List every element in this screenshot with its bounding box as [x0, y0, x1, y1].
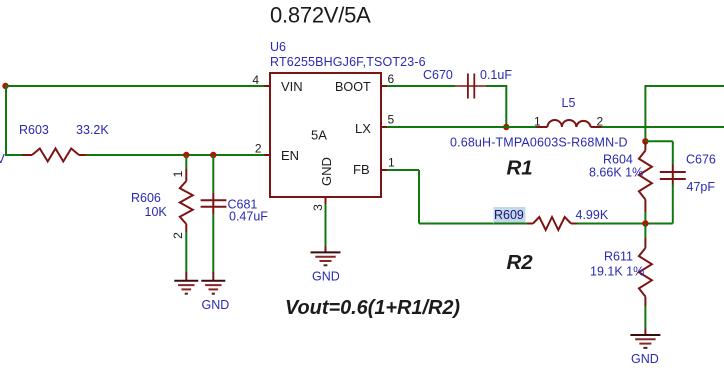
svg-text:GND: GND	[319, 157, 334, 186]
wire R606 top	[185, 155, 187, 169]
capacitor C681	[212, 193, 214, 214]
node EN junction 1	[183, 152, 189, 158]
svg-text:C676: C676	[686, 153, 716, 167]
svg-text:GND: GND	[202, 298, 230, 312]
svg-text:0.1uF: 0.1uF	[480, 68, 512, 82]
ground stub R611	[644, 329, 646, 336]
svg-text:0.47uF: 0.47uF	[229, 210, 268, 224]
wire C670 to LX	[486, 85, 506, 87]
svg-text:10K: 10K	[145, 205, 168, 219]
svg-text:2: 2	[171, 232, 185, 239]
svg-text:2: 2	[597, 115, 604, 129]
svg-text:8.66K 1%: 8.66K 1%	[589, 166, 643, 180]
svg-text:5: 5	[388, 113, 395, 127]
wire FB from pin1	[387, 169, 419, 171]
resistor R609	[527, 223, 533, 225]
svg-text:R604: R604	[603, 153, 633, 167]
ground stub pin3	[325, 247, 327, 253]
svg-text:R603: R603	[19, 123, 49, 137]
wire left vertical drop	[5, 85, 7, 155]
ground symbol under U6 pin3	[311, 251, 341, 253]
wire VIN rail top	[6, 85, 265, 87]
wire VOUT to right edge	[602, 126, 724, 128]
svg-text:0.68uH-TMPA0603S-R68MN-D: 0.68uH-TMPA0603S-R68MN-D	[450, 136, 628, 150]
highlight box R609	[494, 207, 526, 224]
svg-text:BOOT: BOOT	[335, 80, 371, 94]
node FB divider top junction	[642, 138, 648, 144]
inductor L5	[537, 126, 548, 128]
svg-text:4: 4	[252, 73, 259, 87]
wire R604 bottom	[644, 212, 646, 224]
wire EN net to IC	[86, 154, 264, 156]
ground symbol under R606	[174, 280, 198, 282]
svg-text:RT6255BHGJ6F,TSOT23-6: RT6255BHGJ6F,TSOT23-6	[270, 55, 426, 69]
svg-text:33.2K: 33.2K	[76, 123, 109, 137]
svg-text:FB: FB	[353, 162, 370, 177]
svg-text:1: 1	[388, 156, 395, 170]
svg-text:0.872V/5A: 0.872V/5A	[270, 3, 371, 28]
svg-text:V: V	[0, 152, 6, 166]
resistor R604	[644, 141, 646, 150]
svg-text:GND: GND	[631, 352, 659, 366]
node LX junction	[503, 124, 509, 130]
svg-text:2: 2	[255, 142, 262, 156]
resistor R606	[185, 169, 187, 181]
svg-text:EN: EN	[281, 148, 299, 163]
ground symbol under C681	[201, 280, 225, 282]
resistor R603	[32, 149, 79, 162]
wire R609 to junction	[577, 223, 645, 225]
svg-text:L5: L5	[562, 96, 576, 110]
svg-text:5A: 5A	[311, 128, 327, 143]
svg-text:GND: GND	[312, 270, 340, 284]
ground stub R606	[185, 272, 187, 281]
capacitor C670	[455, 85, 486, 87]
wire top-right rail	[645, 85, 724, 87]
svg-text:R609: R609	[494, 208, 524, 222]
svg-text:C670: C670	[423, 68, 453, 82]
pin 6 stub	[381, 85, 387, 87]
op-amp U6 regulator body	[270, 73, 381, 197]
svg-text:47pF: 47pF	[687, 180, 716, 194]
pin 1 stub	[381, 169, 387, 171]
wire C676 branch top	[645, 140, 672, 142]
wire C676 branch bottom	[672, 185, 674, 224]
svg-text:1: 1	[534, 115, 541, 129]
svg-text:R611: R611	[604, 250, 633, 264]
wire EN net left segment	[5, 154, 22, 156]
svg-text:6: 6	[388, 72, 395, 86]
svg-text:19.1K 1%: 19.1K 1%	[590, 265, 644, 279]
wire C681 bottom	[212, 214, 214, 272]
node VIN top-left junction	[2, 83, 8, 89]
svg-text:U6: U6	[270, 40, 286, 54]
wire BOOT net	[387, 85, 455, 87]
wire right vertical	[644, 85, 646, 141]
pin 5 stub	[381, 126, 387, 128]
wire R611 top	[644, 224, 646, 239]
pin 3 stub	[325, 197, 327, 204]
wire R611 bottom	[644, 306, 646, 329]
svg-text:4.99K: 4.99K	[576, 208, 609, 222]
capacitor C676	[672, 165, 674, 185]
svg-text:1: 1	[171, 170, 185, 177]
node EN junction 2	[210, 152, 216, 158]
svg-text:LX: LX	[355, 121, 371, 136]
svg-text:VIN: VIN	[281, 79, 303, 94]
svg-text:Vout=0.6(1+R1/R2): Vout=0.6(1+R1/R2)	[285, 297, 460, 319]
wire C681 top	[212, 155, 214, 193]
svg-text:R606: R606	[131, 191, 161, 205]
svg-text:R2: R2	[507, 251, 534, 274]
wire pin3 to ground	[325, 204, 327, 247]
wire LX from pin5	[387, 126, 537, 128]
svg-text:R1: R1	[507, 157, 533, 180]
node FB divider bottom junction	[642, 220, 648, 226]
wire R606 bottom	[185, 232, 187, 272]
svg-text:3: 3	[311, 204, 325, 211]
pin 2 stub	[264, 154, 270, 156]
ground stub C681	[212, 272, 214, 281]
resistor R611	[644, 238, 646, 248]
ground symbol under R611	[630, 334, 660, 336]
wire under R609 label	[494, 223, 527, 225]
pin 4 stub	[264, 85, 270, 87]
